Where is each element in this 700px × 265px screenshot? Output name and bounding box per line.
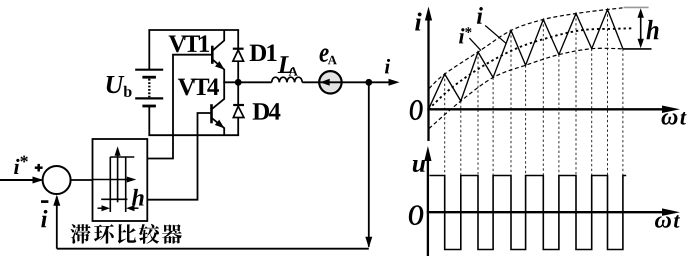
hysteresis loop left edge: [109, 157, 111, 212]
transistor VT1 base bar: [211, 46, 214, 64]
h width arrow right: [132, 207, 139, 209]
lower h reference line: [623, 48, 652, 50]
battery Ub dotted cells: [148, 79, 150, 97]
wire top rail: [148, 29, 239, 31]
label h ripple: [646, 20, 658, 39]
junction node A: [235, 79, 242, 86]
label eA: [320, 48, 329, 61]
square wave u: [429, 176, 626, 250]
EMF source eA: [319, 71, 341, 93]
wire feedback drop: [368, 82, 370, 246]
label VT4: [178, 79, 195, 96]
label omega-t bottom: [655, 216, 671, 227]
transistor VT4 base bar: [210, 104, 213, 123]
label Ub: [107, 76, 125, 93]
bottom plot horizontal axis: [427, 211, 666, 213]
wire middle rail: [223, 81, 271, 83]
battery Ub long plate 2: [135, 97, 163, 99]
label i with pointer: [477, 7, 483, 24]
wire bottom rail: [148, 134, 239, 136]
diode D1: [233, 48, 244, 50]
label u axis: [413, 160, 425, 172]
wire battery bottom: [148, 106, 150, 135]
wire diode column: [237, 30, 239, 135]
label minus sign: [41, 200, 48, 203]
hysteresis symbol vertical axis: [117, 150, 119, 202]
wire output i arrow: [369, 81, 396, 83]
label i* input: [14, 159, 19, 174]
junction node B: [365, 79, 372, 86]
label i axis: [415, 12, 421, 30]
label hysteresis comparator: [71, 224, 91, 244]
hysteresis symbol horizontal axis: [93, 179, 133, 181]
transistor VT4 emitter: [212, 118, 225, 135]
upper h reference line: [624, 6, 649, 8]
transistor VT1 emitter: [212, 59, 224, 82]
hysteresis comparator U1 box: [93, 139, 148, 221]
bottom plot vertical axis u: [427, 154, 429, 256]
label h loop width: [132, 189, 144, 206]
wire feedback riser: [56, 197, 58, 249]
label O top plot: [410, 100, 423, 120]
battery Ub short plate 2: [142, 105, 156, 108]
inductor LA: [272, 77, 303, 82]
hysteresis loop top: [110, 156, 134, 158]
dashed switching instant projections: [444, 74, 446, 176]
wire eA to node: [342, 81, 369, 83]
label i output: [385, 59, 390, 74]
label D4: [253, 103, 269, 119]
dashed envelope i*-h/2: [429, 48, 623, 128]
battery Ub long plate 1: [135, 69, 163, 71]
label D1: [250, 45, 266, 61]
top plot horizontal axis: [427, 108, 664, 110]
wire inductor to eA: [302, 81, 319, 83]
label omega-t top: [662, 113, 678, 124]
label plus sign: [35, 166, 43, 169]
summing junction: [43, 166, 71, 194]
transistor VT1 collector: [212, 30, 224, 51]
hysteresis loop right edge: [125, 157, 127, 212]
dashed envelope i*+h/2: [429, 8, 623, 89]
h width arrow left: [98, 207, 105, 209]
label i* with pointer: [459, 28, 464, 43]
transistor VT4 collector: [212, 82, 225, 109]
label VT1: [169, 36, 186, 53]
label O bottom plot: [409, 205, 424, 225]
diode D4: [233, 104, 244, 106]
wire comparator to VT1 base: [147, 55, 212, 159]
top plot vertical axis i: [427, 16, 429, 141]
wire feedback bottom: [57, 248, 369, 250]
wire comparator to VT4 base: [147, 113, 211, 200]
actual current i zigzag: [429, 10, 623, 110]
hysteresis loop bottom: [101, 198, 127, 200]
h dimension arrow: [640, 14, 642, 43]
label LA: [278, 56, 293, 73]
battery Ub short plate 1: [142, 76, 156, 79]
dotted reference current i*: [429, 28, 634, 109]
wire summing to comparator: [71, 179, 93, 181]
label i feedback: [41, 210, 47, 227]
node i* reference input: [0, 179, 42, 181]
wire battery top: [148, 30, 150, 70]
